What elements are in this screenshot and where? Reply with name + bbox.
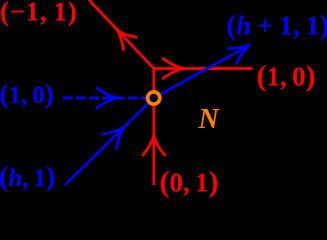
svg-text:(h + 1, 1): (h + 1, 1) — [227, 10, 327, 41]
arrow on red (0,1) edge pointing up — [142, 135, 165, 156]
wire: red edge direction (0,1) vertical below junction — [152, 69, 155, 186]
wire: red ray direction (-1,1) up-left — [89, 0, 154, 69]
wire: dashed blue ray (1,0) into node from left — [63, 97, 148, 100]
wire: blue edge direction (h,1) from lower left to node — [65, 98, 154, 185]
svg-text:(1, 0): (1, 0) — [257, 60, 316, 93]
arrow on red (-1,1) ray — [117, 30, 137, 51]
svg-text:(−1, 1): (−1, 1) — [0, 0, 77, 26]
wire: red ray direction (1,0) right — [154, 67, 253, 70]
arrow on red (1,0) ray — [162, 58, 184, 79]
svg-text:N: N — [198, 104, 221, 135]
arrow on blue (h,1) edge — [101, 127, 124, 150]
svg-text:(1, 0): (1, 0) — [0, 79, 54, 109]
wire: blue edge direction (h+1,1) from node to upper right — [154, 45, 250, 98]
arrow on blue (h+1,1) edge — [227, 45, 250, 65]
arrow on dashed blue ray — [96, 88, 118, 109]
svg-text:(0, 1): (0, 1) — [160, 166, 219, 199]
node N: orange ring marker — [148, 92, 160, 104]
svg-text:(h, 1): (h, 1) — [0, 162, 55, 193]
